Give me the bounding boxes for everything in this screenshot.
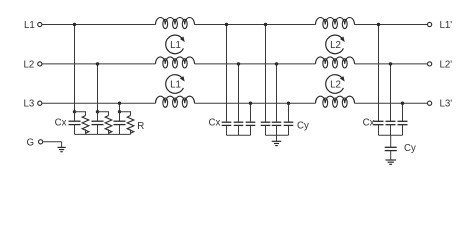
inductor L1 choke winding (phase L2) [156, 57, 195, 68]
wire cap 3 bottom lead (left bank) [119, 125, 121, 135]
wire right-Cx bottom rail [379, 134, 403, 136]
wire mid-Cy branch 1 drop [265, 25, 267, 123]
wire resistor 2 bottom lead [108, 129, 110, 134]
capacitor Cy (mid bank) 1 [261, 122, 271, 125]
terminal L3 (input) [38, 101, 42, 105]
inductor L1 choke winding (phase L3) [156, 96, 195, 107]
wire L1 line segment 3 [355, 24, 428, 26]
inductor L2 choke winding (phase L3) [316, 96, 355, 107]
svg-text:L1: L1 [170, 40, 181, 51]
svg-text:Cy: Cy [404, 143, 416, 154]
core arrow U2a label L2 [326, 35, 345, 54]
svg-text:L2': L2' [440, 59, 453, 70]
wire cap 1 top lead (left bank) [74, 112, 76, 121]
resistor R1 [82, 116, 89, 134]
junction dot L3 x250 [249, 102, 252, 105]
terminal L3' (output) [428, 101, 432, 105]
wire resistor 2 top lead [98, 112, 109, 116]
terminal G (ground input) [39, 140, 43, 144]
svg-text:Cx: Cx [55, 118, 67, 129]
wire resistor 1 bottom lead [85, 129, 87, 134]
junction dot L2 x276 [275, 62, 278, 65]
node split junction 3 (left bank) [118, 110, 121, 113]
wire G terminal to earth [43, 141, 62, 143]
inductor L2 choke winding (phase L2) [316, 57, 355, 68]
svg-text:L2: L2 [330, 80, 341, 91]
capacitor Cx2 (left bank) [92, 121, 104, 124]
svg-text:L2: L2 [24, 59, 35, 70]
wire mid-Cy branch 1 bottom lead [265, 125, 267, 135]
wire cap 2 bottom lead (left bank) [97, 125, 99, 135]
wire branch 3 drop (left bank) [119, 103, 121, 112]
resistor R2 [105, 116, 112, 134]
junction dot L1 x265 [264, 23, 267, 26]
core arrow U2b label L2 [326, 75, 345, 94]
junction dot L2 x390 [389, 62, 392, 65]
wire cap 1 bottom lead (left bank) [74, 125, 76, 135]
junction dot L1 x75 [73, 23, 76, 26]
capacitor Cx (mid bank) 2 [234, 122, 244, 125]
junction dot L1 x227 [225, 23, 228, 26]
wire L3 line segment 1 [42, 102, 156, 104]
inductor L2 choke winding (phase L1) [316, 18, 355, 29]
wire mid-Cx branch 3 bottom lead [250, 125, 252, 135]
junction dot L3 x403 [401, 102, 404, 105]
wire mid-Cx branch 1 drop [226, 25, 228, 123]
ground (right Cy) [385, 151, 396, 165]
svg-text:L1': L1' [440, 20, 453, 31]
inductor L1 choke winding (phase L1) [156, 18, 195, 29]
core arrow U1a label L1 [166, 35, 185, 54]
wire right-Cx branch 2 bottom lead [390, 125, 392, 136]
wire mid-Cx branch 1 bottom lead [226, 125, 228, 135]
wire mid-Cx branch 2 drop [238, 64, 240, 122]
wire right Cy top lead [390, 135, 392, 147]
wire L1 line segment 1 [42, 24, 156, 26]
svg-text:Cx: Cx [208, 118, 220, 129]
wire left bank bottom rail [75, 133, 131, 135]
wire mid-Cy bottom rail [266, 134, 289, 136]
wire resistor 3 bottom lead [130, 129, 132, 134]
capacitor Cy (right) [385, 147, 397, 150]
wire resistor 1 top lead [75, 112, 86, 116]
wire right-Cx branch 1 bottom lead [378, 125, 380, 136]
svg-text:G: G [27, 137, 35, 148]
ground (G terminal earth symbol) [58, 142, 66, 152]
svg-text:L3: L3 [24, 99, 35, 110]
junction dot L3 x288 [287, 102, 290, 105]
wire mid-Cx bottom rail [227, 134, 251, 136]
wire right-Cx branch 3 bottom lead [402, 125, 404, 136]
wire mid-Cx branch 2 bottom lead [238, 125, 240, 135]
wire L3 line segment 3 [355, 102, 428, 104]
wire L2 line segment 1 [42, 63, 156, 65]
terminal L2' (output) [428, 62, 432, 66]
capacitor Cx (right bank) 1 [374, 121, 384, 124]
wire resistor 3 top lead [120, 112, 131, 116]
resistor R3 [127, 116, 134, 134]
wire mid-Cx branch 3 drop [250, 103, 252, 122]
capacitor Cx3 (left bank) [114, 121, 126, 124]
capacitor Cx1 (left bank) [69, 121, 81, 124]
wire L2 line segment 2 [195, 63, 316, 65]
wire mid-Cy branch 2 drop [276, 64, 278, 122]
wire branch 1 drop (left bank) [74, 25, 76, 112]
svg-text:Cx: Cx [363, 118, 375, 129]
capacitor Cx (right bank) 2 [386, 121, 396, 124]
node split junction 2 (left bank) [96, 110, 99, 113]
svg-text:R: R [137, 121, 144, 132]
svg-text:L2: L2 [330, 40, 341, 51]
ground (mid Cy star point) [272, 135, 282, 145]
wire L3 line segment 2 [195, 102, 316, 104]
node split junction 1 (left bank) [73, 110, 76, 113]
capacitor Cx (mid bank) 3 [246, 122, 256, 125]
wire mid-Cy branch 3 drop [288, 103, 290, 122]
wire cap 3 top lead (left bank) [119, 112, 121, 121]
wire L1 line segment 2 [195, 24, 316, 26]
capacitor Cy (mid bank) 3 [284, 122, 294, 125]
svg-text:L3': L3' [440, 99, 453, 110]
core arrow U1b label L1 [166, 75, 185, 94]
capacitor Cx (mid bank) 1 [222, 122, 232, 125]
terminal L1 (input) [38, 22, 42, 26]
terminal L2 (input) [38, 62, 42, 66]
svg-text:L1: L1 [24, 20, 35, 31]
capacitor Cy (mid bank) 2 [272, 122, 282, 125]
junction dot L2 x238 [237, 62, 240, 65]
svg-text:L1: L1 [170, 80, 181, 91]
wire L2 line segment 3 [355, 63, 428, 65]
junction dot L3 x119 [118, 102, 121, 105]
terminal L1' (output) [428, 22, 432, 26]
capacitor Cx (right bank) 3 [398, 121, 408, 124]
junction dot L2 x97 [96, 62, 99, 65]
wire mid-Cy branch 2 bottom lead [276, 125, 278, 135]
junction dot L1 x378 [377, 23, 380, 26]
wire right-Cx branch 2 drop [390, 64, 392, 121]
wire branch 2 drop (left bank) [97, 64, 99, 112]
wire right-Cx branch 1 drop [378, 25, 380, 122]
wire mid-Cy branch 3 bottom lead [288, 125, 290, 135]
svg-text:Cy: Cy [297, 120, 309, 131]
wire cap 2 top lead (left bank) [97, 112, 99, 121]
wire right-Cx branch 3 drop [402, 103, 404, 121]
